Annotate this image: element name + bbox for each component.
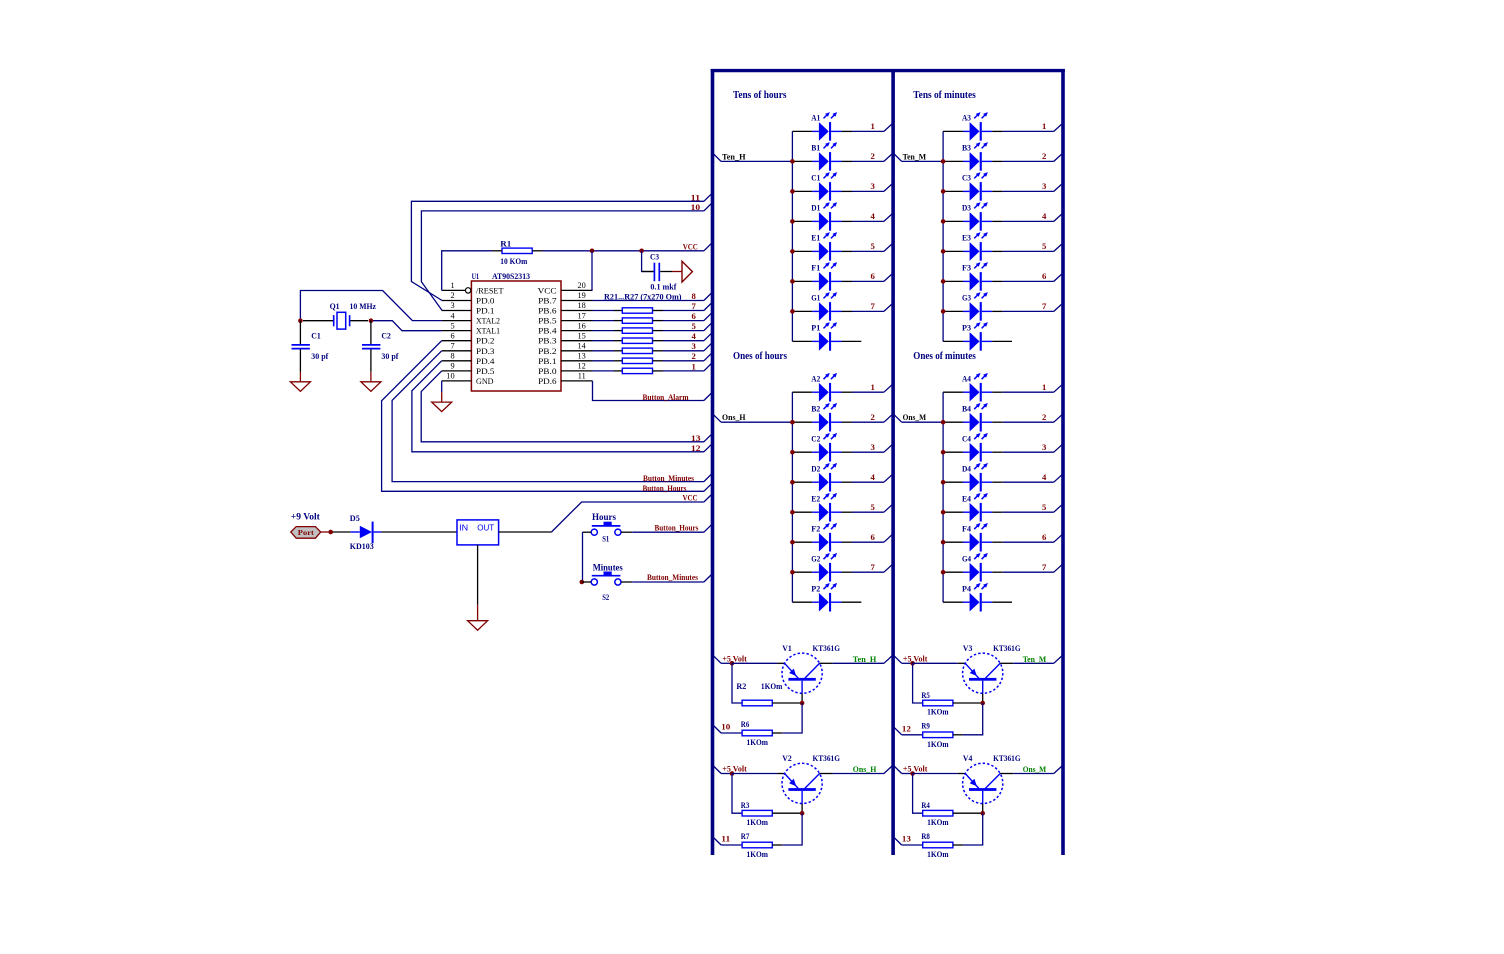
svg-text:11: 11 (578, 372, 586, 381)
net Button_Hours wire from S1 (621, 524, 712, 532)
LED F2 (792, 523, 852, 552)
svg-text:10: 10 (721, 722, 731, 732)
pin number 9 (450, 362, 454, 371)
series resistor bank label R21...R27 (604, 292, 682, 302)
C3 value 0.1 mkf (650, 281, 676, 291)
U1 pin 2 stub (442, 300, 472, 302)
net 12 wire (pin8) (412, 361, 712, 452)
svg-text:Port: Port (298, 528, 315, 537)
LED C2 label (811, 434, 820, 443)
net number 4 (Ones of hours) (870, 472, 875, 482)
svg-text:13: 13 (691, 433, 701, 443)
R7 value 1KOm (747, 849, 769, 859)
svg-text:Button_Alarm: Button_Alarm (643, 392, 689, 402)
wire +5V to emitter (V3) (913, 662, 966, 664)
LED F1 (792, 262, 852, 291)
LED P1 (792, 322, 861, 351)
svg-text:Button_Minutes: Button_Minutes (647, 572, 699, 582)
svg-text:0.1 mkf: 0.1 mkf (650, 281, 676, 291)
LED D1 label (811, 204, 820, 213)
pin number 7 (450, 342, 454, 351)
svg-text:OUT: OUT (477, 523, 495, 533)
VCC net jog into bus (704, 243, 712, 251)
net number 7 (Tens of minutes) (1042, 301, 1047, 311)
svg-text:3: 3 (1042, 442, 1047, 452)
resistor R6 (742, 703, 802, 736)
net Ten_H wire (V1) (820, 655, 893, 663)
svg-text:Button_Hours: Button_Hours (643, 483, 688, 493)
LED B1 (792, 142, 852, 171)
junction dot F2 anode (790, 540, 795, 545)
junction dot D3 anode (941, 219, 946, 224)
R5 label (921, 690, 930, 700)
+5 Volt label (V2) (722, 764, 747, 774)
svg-text:+5 Volt: +5 Volt (903, 654, 928, 664)
pin number 20 (578, 281, 586, 290)
net Ten_H label (853, 655, 877, 664)
svg-text:1KOm: 1KOm (761, 681, 783, 691)
U1 pin name PB.2 (538, 347, 557, 356)
wire LED C4 to bus net 3 (1003, 444, 1063, 452)
svg-text:E3: E3 (962, 234, 971, 243)
R4 value 1KOm (927, 817, 949, 827)
svg-text:V4: V4 (963, 753, 973, 763)
svg-text:20: 20 (578, 281, 586, 290)
svg-text:/RESET: /RESET (476, 286, 504, 295)
svg-text:5: 5 (870, 502, 875, 512)
LED E4 label (962, 494, 972, 503)
svg-text:R4: R4 (921, 800, 930, 810)
svg-text:14: 14 (578, 342, 587, 351)
net 11 entry wire (R7) (713, 837, 742, 845)
svg-text:KT361G: KT361G (813, 753, 841, 763)
R1 value 10 KOm (500, 256, 527, 266)
svg-text:F2: F2 (811, 524, 820, 533)
svg-text:A4: A4 (962, 374, 972, 383)
svg-text:D2: D2 (811, 464, 820, 473)
svg-text:4: 4 (870, 211, 875, 221)
net number 2 (Tens of minutes) (1042, 151, 1046, 161)
U1 pin 9 stub (442, 370, 472, 372)
wire S2 left lead (582, 581, 591, 583)
LED G1 label (811, 294, 820, 303)
net Ten_M label (1023, 655, 1047, 664)
LED A4 label (962, 374, 972, 383)
svg-text:A2: A2 (811, 374, 820, 383)
LED E2 (792, 493, 852, 522)
wire R1 to VCC bus entry (543, 250, 704, 252)
svg-text:4: 4 (450, 311, 455, 320)
S2 label (602, 592, 609, 602)
R6 value 1KOm (747, 737, 769, 747)
resistor R2 (742, 700, 802, 706)
LED A3 label (962, 114, 971, 123)
junction dot C4 anode (941, 450, 946, 455)
svg-text:Ten_H: Ten_H (722, 152, 746, 161)
U1 pin 16 stub (561, 330, 593, 332)
svg-text:A3: A3 (962, 114, 971, 123)
D5 value KD103 (350, 541, 374, 551)
svg-text:C3: C3 (650, 251, 659, 261)
junction dot D1 anode (790, 219, 795, 224)
svg-text:PB.3: PB.3 (538, 337, 557, 346)
net Ons_H entry wire (713, 414, 792, 422)
junction dot B4 anode (941, 420, 946, 425)
wire regulator ground (477, 545, 479, 605)
R7 label (741, 831, 750, 841)
svg-text:E2: E2 (811, 494, 820, 503)
wire +5V dot down to R3 (732, 774, 742, 814)
svg-text:XTAL1: XTAL1 (476, 327, 500, 336)
net 12 number label (902, 724, 911, 734)
wire LED A3 to bus net 1 (1003, 124, 1063, 132)
pin number 17 (578, 311, 586, 320)
group header Ones of hours (733, 351, 787, 362)
junction dot S1/S2 common (580, 580, 585, 585)
svg-text:G4: G4 (962, 554, 972, 563)
capacitor C1 (292, 321, 310, 372)
bus line left (hours column) (711, 69, 715, 855)
LED G4 label (962, 554, 972, 563)
net number 1 (Tens of hours) (870, 121, 874, 131)
svg-text:+5 Volt: +5 Volt (903, 764, 928, 774)
svg-text:19: 19 (578, 291, 586, 300)
svg-text:PD.5: PD.5 (476, 367, 495, 376)
junction dot C1 anode (790, 189, 795, 194)
wire LED B3 to bus net 2 (1003, 154, 1063, 162)
wire LED E2 to bus net 5 (852, 504, 893, 512)
junction dot base (V1) (800, 701, 805, 706)
wire LED E1 to bus net 5 (852, 244, 893, 252)
svg-text:6: 6 (450, 331, 454, 340)
svg-text:1: 1 (870, 382, 874, 392)
net 12 entry wire (R9) (894, 727, 923, 735)
pin number 3 (450, 301, 454, 310)
+5 Volt label (V3) (903, 654, 928, 664)
svg-text:10: 10 (446, 372, 454, 381)
svg-text:6: 6 (870, 271, 875, 281)
net 7 number label (691, 301, 696, 311)
pin number 4 (450, 311, 455, 320)
LED P4 label (962, 584, 972, 593)
net Ons_H label (853, 765, 877, 774)
net 10 entry wire (R6) (713, 725, 742, 733)
LED P2 (792, 583, 861, 612)
net Ten_H label (722, 152, 746, 161)
ground symbol under C2 (361, 372, 381, 392)
R9 label (921, 721, 930, 731)
svg-text:Button_Hours: Button_Hours (655, 522, 700, 532)
transistor V4 KT361G (963, 763, 1003, 813)
net 2 number label (691, 351, 695, 361)
svg-text:Ten_H: Ten_H (853, 655, 877, 664)
svg-text:2: 2 (1042, 151, 1046, 161)
transistor V2 KT361G (782, 763, 822, 813)
LED G2 label (811, 554, 820, 563)
svg-text:B2: B2 (811, 404, 820, 413)
net Button_Alarm wire (593, 381, 712, 401)
U1 pin 12 stub (561, 370, 593, 372)
net 8 wire (PB.7) (593, 293, 712, 301)
svg-text:4: 4 (1042, 472, 1047, 482)
wire LED A1 to bus net 1 (852, 124, 893, 132)
V2 label (782, 753, 792, 763)
D5 label (350, 513, 360, 523)
U1 pin 17 stub (561, 320, 593, 322)
R8 value 1KOm (927, 849, 949, 859)
net Button_Alarm label (643, 392, 689, 402)
svg-text:7: 7 (870, 301, 875, 311)
svg-text:5: 5 (1042, 241, 1047, 251)
wire LED G4 to bus net 7 (1003, 564, 1063, 572)
svg-text:1: 1 (450, 281, 454, 290)
net Ons_H wire (V2) (820, 766, 893, 774)
svg-text:8: 8 (450, 352, 454, 361)
net 12 number label (691, 443, 701, 453)
svg-text:PB.4: PB.4 (538, 327, 557, 336)
LED G3 label (962, 294, 971, 303)
R1 label (500, 239, 511, 249)
LED B3 label (962, 144, 971, 153)
svg-text:R5: R5 (921, 690, 930, 700)
net Button_Minutes label (643, 473, 695, 483)
wire +5V to emitter (V4) (913, 773, 966, 775)
net number 3 (Tens of hours) (870, 181, 875, 191)
wire S1 left to common (583, 532, 592, 582)
resistor R23 (net 3) (593, 343, 712, 354)
net Button_Hours label (at S1) (655, 522, 700, 532)
net 11 wire (pin2 to bus) (411, 193, 712, 300)
resistor R3 (742, 810, 802, 816)
svg-text:30 pf: 30 pf (311, 351, 328, 361)
U1 pin 7 stub (442, 350, 472, 352)
U1 pin name PB.1 (538, 357, 557, 366)
wire LED F3 to bus net 6 (1003, 274, 1063, 282)
R3 label (741, 800, 750, 810)
svg-text:11: 11 (691, 192, 701, 202)
svg-text:G3: G3 (962, 294, 971, 303)
svg-text:E1: E1 (811, 234, 820, 243)
pin number 6 (450, 331, 454, 340)
svg-text:7: 7 (1042, 562, 1047, 572)
wire LED D1 to bus net 4 (852, 214, 893, 222)
junction dot D2 anode (790, 480, 795, 485)
net 1 number label (691, 361, 695, 371)
wire LED G3 to bus net 7 (1003, 304, 1063, 312)
svg-text:1: 1 (870, 121, 874, 131)
net number 1 (Ones of hours) (870, 382, 874, 392)
anode rail wire (Ones of hours) (791, 392, 793, 602)
junction dot crystal right (369, 318, 374, 323)
net Ons_M entry wire (894, 414, 943, 422)
svg-text:PB.0: PB.0 (538, 367, 557, 376)
LED F3 label (962, 264, 971, 273)
svg-text:U1: U1 (472, 272, 480, 281)
pin number 5 (450, 321, 454, 330)
LED F3 (943, 262, 1003, 291)
svg-text:KT361G: KT361G (993, 643, 1021, 653)
svg-text:XTAL2: XTAL2 (476, 317, 500, 326)
wire LED F1 to bus net 6 (852, 274, 893, 282)
net 3 number label (691, 341, 696, 351)
svg-text:+9 Volt: +9 Volt (291, 512, 321, 522)
junction dot B1 anode (790, 159, 795, 164)
svg-text:PB.5: PB.5 (538, 317, 557, 326)
U1 pin 5 stub (442, 330, 472, 332)
R9 value 1KOm (927, 739, 949, 749)
svg-text:PB.2: PB.2 (538, 347, 557, 356)
junction dot +5V (V1) (730, 661, 735, 666)
svg-text:P2: P2 (811, 584, 820, 593)
net number 6 (Tens of hours) (870, 271, 875, 281)
svg-text:+5 Volt: +5 Volt (722, 764, 747, 774)
svg-text:12: 12 (578, 362, 586, 371)
net number 2 (Tens of hours) (870, 151, 874, 161)
junction dot E4 anode (941, 510, 946, 515)
LED F1 label (811, 264, 820, 273)
svg-text:D3: D3 (962, 204, 971, 213)
svg-text:IN: IN (459, 523, 468, 533)
U1 pin name PD.3 (476, 347, 495, 356)
capacitor C3 (642, 263, 672, 282)
svg-text:AT90S2313: AT90S2313 (492, 272, 530, 281)
net number 5 (Tens of minutes) (1042, 241, 1047, 251)
pin number 14 (578, 342, 587, 351)
svg-text:D5: D5 (350, 513, 360, 523)
svg-text:Hours: Hours (592, 513, 616, 523)
junction dot C3 anode (941, 189, 946, 194)
wire pin1 to R1 (vertical) (442, 251, 492, 291)
junction dot G3 anode (941, 309, 946, 314)
svg-text:18: 18 (578, 301, 586, 310)
wire VCC junction down to C3 (642, 251, 654, 272)
diode D5 (351, 522, 382, 544)
svg-text:6: 6 (1042, 271, 1047, 281)
net number 7 (Ones of hours) (870, 562, 875, 572)
LED F2 label (811, 524, 820, 533)
U1 pin 10 stub (442, 380, 472, 382)
svg-text:P4: P4 (962, 584, 972, 593)
LED D2 label (811, 464, 820, 473)
LED D4 label (962, 464, 972, 473)
svg-text:4: 4 (1042, 211, 1047, 221)
svg-text:VCC: VCC (538, 286, 558, 295)
svg-text:10 KOm: 10 KOm (500, 256, 527, 266)
svg-text:2: 2 (450, 291, 454, 300)
pin number 8 (450, 352, 454, 361)
svg-text:3: 3 (691, 341, 696, 351)
LED B3 (943, 142, 1003, 171)
wire +5V to emitter (V2) (732, 773, 785, 775)
svg-text:PD.4: PD.4 (476, 357, 495, 366)
Q1 value 10 MHz (350, 301, 377, 311)
net 4 number label (691, 331, 696, 341)
svg-text:1: 1 (1042, 121, 1046, 131)
svg-text:3: 3 (450, 301, 454, 310)
svg-text:Minutes: Minutes (593, 564, 623, 574)
net number 4 (Ones of minutes) (1042, 472, 1047, 482)
junction dot crystal left (298, 318, 303, 323)
LED A4 (943, 373, 1003, 402)
svg-text:1KOm: 1KOm (747, 817, 769, 827)
wire LED G2 to bus net 7 (852, 564, 893, 572)
resistor R27 (net 7) (593, 303, 712, 314)
+9 Volt label (291, 512, 321, 522)
net +5 Volt entry (V1) (713, 655, 732, 663)
LED A1 label (811, 114, 820, 123)
svg-text:4: 4 (870, 472, 875, 482)
LED D4 (943, 463, 1003, 492)
U1 pin name PB.0 (538, 367, 557, 376)
wire pin20 VCC vertical (591, 251, 593, 291)
LED E4 (943, 493, 1003, 522)
net Button_Hours label (643, 483, 688, 493)
resistor R4 (923, 810, 983, 816)
wire LED B1 to bus net 2 (852, 154, 893, 162)
U1 pin name XTAL1 (476, 327, 500, 336)
svg-text:S2: S2 (602, 592, 609, 602)
Q1 label (330, 301, 340, 311)
LED A2 (792, 373, 852, 402)
LED B1 label (811, 144, 820, 153)
pin number 16 (578, 321, 586, 330)
R4 label (921, 800, 930, 810)
svg-text:S1: S1 (602, 534, 609, 544)
+5 Volt label (V4) (903, 764, 928, 774)
group header Tens of hours (733, 90, 787, 101)
svg-text:7: 7 (691, 301, 696, 311)
ground symbol under U1 (432, 392, 452, 412)
junction dot E2 anode (790, 510, 795, 515)
resistor R24 (net 4) (593, 333, 712, 344)
junction dot E1 anode (790, 249, 795, 254)
net VCC label (regulator output) (683, 492, 698, 502)
svg-text:15: 15 (578, 331, 586, 340)
svg-text:+5 Volt: +5 Volt (722, 654, 747, 664)
U1 pin 18 stub (561, 310, 593, 312)
net 10 number label (721, 722, 731, 732)
wire LED E3 to bus net 5 (1003, 244, 1063, 252)
net Ons_M label (1023, 765, 1047, 774)
junction dot G1 anode (790, 309, 795, 314)
svg-text:V3: V3 (963, 643, 973, 653)
net 10 number label (691, 202, 701, 212)
wire LED C2 to bus net 3 (852, 444, 893, 452)
svg-text:B4: B4 (962, 404, 972, 413)
svg-text:C2: C2 (811, 434, 820, 443)
bus border top (711, 69, 1065, 72)
node XTAL2 wire (crystal left over the top to pin4) (300, 291, 441, 321)
net 11 number label (691, 192, 701, 202)
U1 pin 11 stub (561, 380, 593, 382)
svg-text:1KOm: 1KOm (927, 817, 949, 827)
C1 value 30 pf (311, 351, 328, 361)
svg-text:KT361G: KT361G (993, 753, 1021, 763)
U1 pin 8 stub (442, 360, 472, 362)
svg-text:1KOm: 1KOm (927, 707, 949, 717)
svg-text:5: 5 (691, 321, 696, 331)
transistor V1 KT361G (782, 653, 822, 703)
svg-text:1: 1 (1042, 382, 1046, 392)
C2 value 30 pf (381, 351, 398, 361)
svg-text:1KOm: 1KOm (747, 849, 769, 859)
net Button_Minutes wire (pin7) (392, 351, 712, 482)
svg-text:C1: C1 (811, 174, 820, 183)
LED E1 (792, 232, 852, 261)
group header Tens of minutes (913, 90, 976, 101)
LED A1 (792, 112, 852, 141)
svg-text:C1: C1 (311, 331, 321, 341)
